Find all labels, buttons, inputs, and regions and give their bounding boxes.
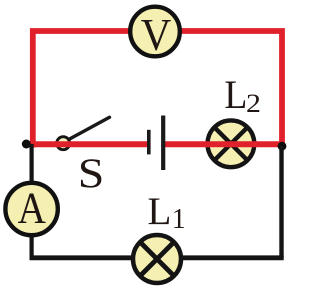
svg-text:2: 2 <box>246 90 261 119</box>
svg-text:L: L <box>224 73 247 117</box>
svg-text:L: L <box>148 190 172 233</box>
svg-text:S: S <box>78 150 105 197</box>
svg-text:A: A <box>18 184 46 233</box>
svg-text:V: V <box>141 9 172 60</box>
svg-text:1: 1 <box>172 204 186 235</box>
